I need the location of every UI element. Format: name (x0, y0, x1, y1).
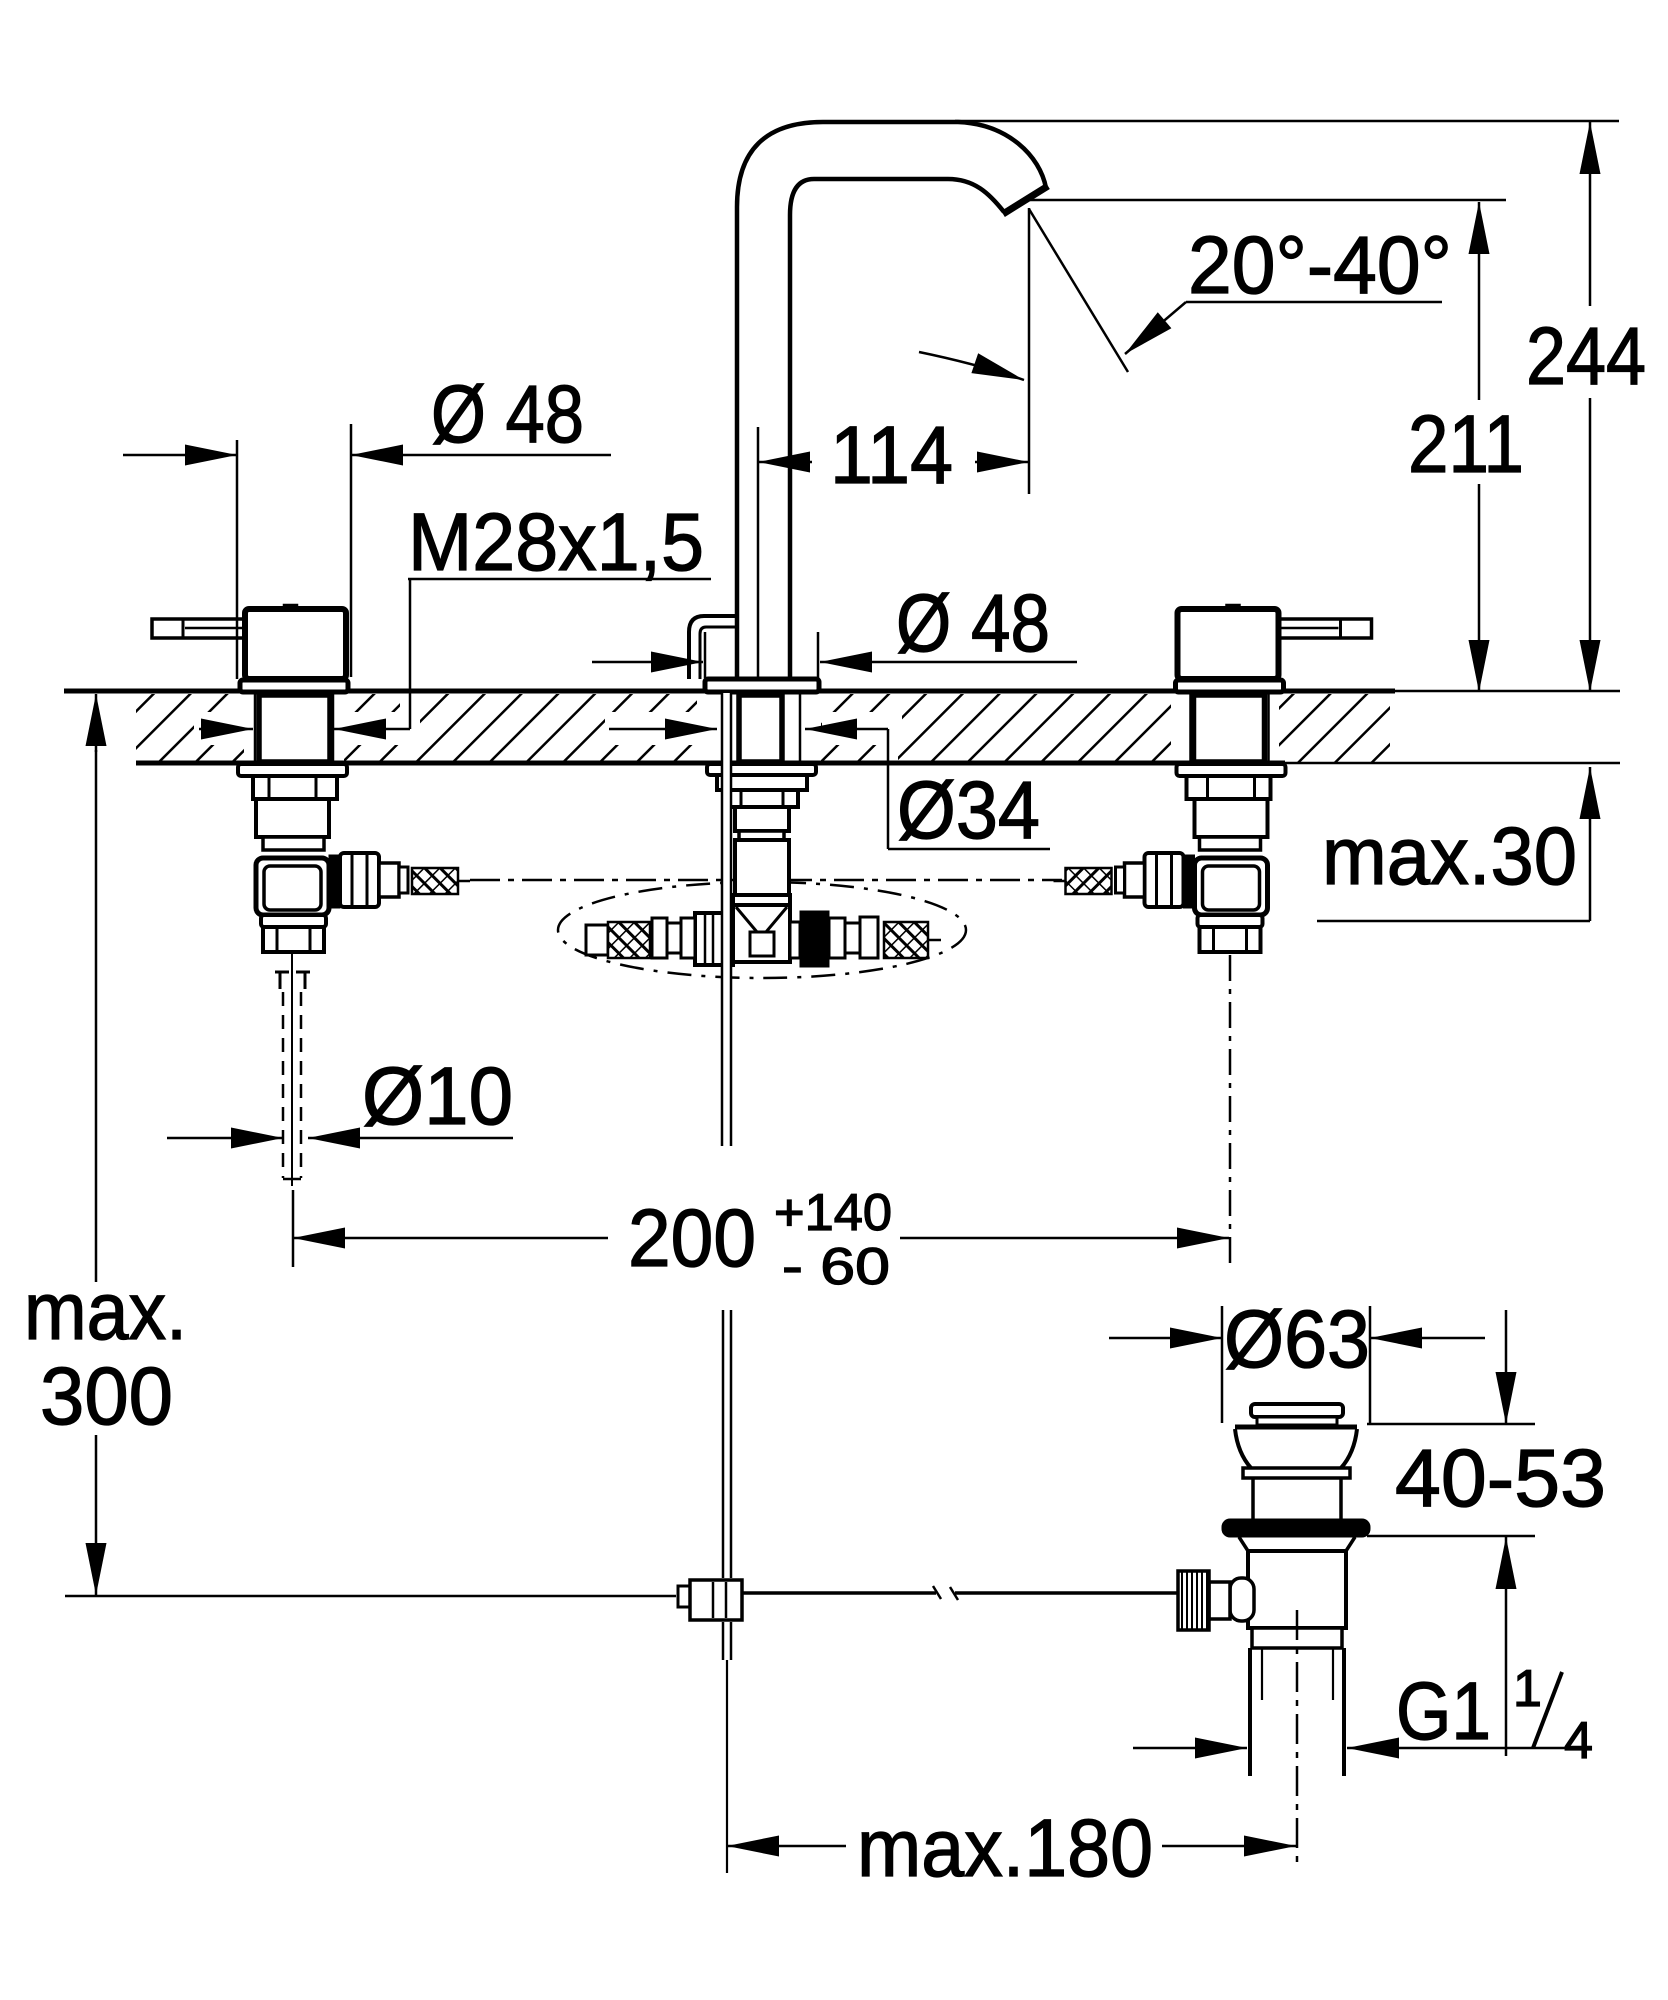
pop-up cap (1251, 1404, 1343, 1417)
drain pull knob (L-shape) (689, 616, 735, 679)
svg-text:M28x1,5: M28x1,5 (408, 497, 704, 588)
svg-text:max.30: max.30 (1322, 811, 1577, 902)
left valve pull rod stub and bracket (275, 952, 310, 1186)
hose centreline (470, 879, 1062, 882)
faucet pull rod below counter (722, 693, 731, 1146)
clearance hole lines (254, 694, 257, 762)
dimension O48 left (123, 424, 611, 679)
svg-text:114: 114 (830, 410, 953, 501)
valve body (256, 799, 329, 837)
braided hose (412, 868, 458, 894)
drain knob (knurled) (1178, 1571, 1209, 1630)
hole left valve (244, 688, 344, 768)
water flow line (1029, 209, 1128, 372)
base flange (240, 680, 348, 692)
clearance hole line (799, 694, 802, 762)
drain neck (1251, 1478, 1255, 1519)
svg-text:40-53: 40-53 (1395, 1433, 1606, 1524)
lower flange ring (261, 915, 326, 927)
counter top line (64, 689, 1395, 694)
label 20-40 degrees with leader (1125, 302, 1442, 354)
hole right valve (1171, 688, 1279, 768)
svg-text:300: 300 (40, 1351, 173, 1442)
svg-text:20°-40°: 20°-40° (1188, 220, 1452, 311)
svg-text:Ø10: Ø10 (362, 1051, 513, 1142)
pop-up lever junction (678, 1580, 742, 1620)
pull rod lower section (723, 1310, 731, 1873)
svg-text:244: 244 (1526, 311, 1646, 402)
spout shank through counter (739, 695, 782, 762)
hole centre spout (697, 688, 821, 768)
dimension max.180 (727, 1845, 1296, 1848)
countertop hatched band (64, 688, 1620, 768)
drain knob ball (1230, 1578, 1254, 1621)
spout base flange (705, 679, 819, 692)
flange edge stubs (704, 632, 707, 678)
washer below counter (238, 764, 347, 776)
angle valve block (256, 858, 329, 915)
tee right stem (790, 922, 800, 958)
svg-text:Ø63: Ø63 (1224, 1294, 1370, 1385)
outlet face (1003, 186, 1048, 214)
dimension 114 (758, 208, 1029, 678)
white halo centre right arrow and leader (822, 712, 902, 745)
svg-text:200: 200 (628, 1193, 756, 1284)
tee left rings (681, 918, 695, 958)
rubber seal (black) (1222, 1519, 1370, 1537)
dimension 200 +140/-60 (293, 1190, 1229, 1267)
svg-text:Ø 48: Ø 48 (431, 369, 584, 460)
side port separator (black) (329, 855, 340, 908)
drain valve body (1248, 1551, 1346, 1628)
union nut (340, 853, 379, 907)
dimension 40-53 (1367, 1310, 1535, 1756)
tee right rings (829, 918, 845, 958)
tee right black nut (800, 911, 829, 967)
svg-text:4: 4 (1564, 1712, 1593, 1770)
drain flange (1235, 1425, 1357, 1430)
dimension O63 (1109, 1306, 1485, 1423)
dimension 211 (1029, 200, 1506, 692)
svg-text:- 60: - 60 (782, 1238, 890, 1296)
tee right hose braid (884, 922, 928, 958)
svg-text:max.180: max.180 (857, 1803, 1153, 1894)
svg-text:211: 211 (1408, 399, 1524, 490)
right valve centreline down to 200 dimension (1229, 955, 1232, 1263)
right valve (mirror of left) (1054, 605, 1372, 952)
tee left hose braid (586, 925, 608, 955)
drain centreline (1296, 1610, 1299, 1868)
handle body (284, 605, 297, 611)
white halo left arrow of M28 (194, 712, 256, 745)
dimension 244 (955, 121, 1619, 692)
bottom nut (263, 927, 324, 952)
dimension max.300 (65, 694, 676, 1596)
drain assembly (1178, 1404, 1370, 1776)
under-seal flare (1239, 1537, 1355, 1551)
tee connector (586, 895, 941, 967)
svg-text:Ø 48: Ø 48 (896, 578, 1050, 669)
centre tube below counter (735, 807, 789, 831)
dimension max.30 (1317, 767, 1590, 921)
hex nut (253, 776, 337, 799)
lever (152, 619, 244, 638)
left valve (152, 605, 470, 952)
outer contour (737, 122, 1046, 691)
dimension O34 with leader (609, 729, 1050, 849)
dimension G1 1/4 (1133, 1747, 1591, 1750)
inner contour (790, 179, 1004, 691)
svg-text:G1: G1 (1396, 1666, 1491, 1757)
counter bottom line (136, 761, 1285, 766)
drain pipe (1248, 1648, 1252, 1776)
drain knob stem (1209, 1582, 1230, 1619)
centre washer stack below counter (707, 764, 816, 895)
white halo centre left arrow (605, 712, 697, 745)
spout (689, 122, 1048, 691)
svg-text:max.: max. (24, 1266, 187, 1357)
dimension O48 centre (592, 661, 1077, 664)
white halo right arrow of M28 and leader (332, 712, 420, 745)
svg-text:1: 1 (1513, 1660, 1542, 1718)
dimension O10 (167, 1137, 513, 1140)
label M28x1,5 with leader (199, 579, 711, 729)
adapter (379, 863, 399, 897)
dashed pull rod (O10) (283, 992, 301, 1179)
threaded shank through counter (259, 695, 330, 762)
tee left nut (695, 913, 733, 965)
body bottom collar (1252, 1628, 1342, 1648)
svg-text:Ø34: Ø34 (897, 765, 1040, 856)
horizontal lever rod to drain (742, 1586, 1178, 1600)
svg-text:+140: +140 (774, 1184, 892, 1242)
basin ellipse (dashed) (558, 882, 966, 978)
swivel arrow (919, 352, 1024, 380)
